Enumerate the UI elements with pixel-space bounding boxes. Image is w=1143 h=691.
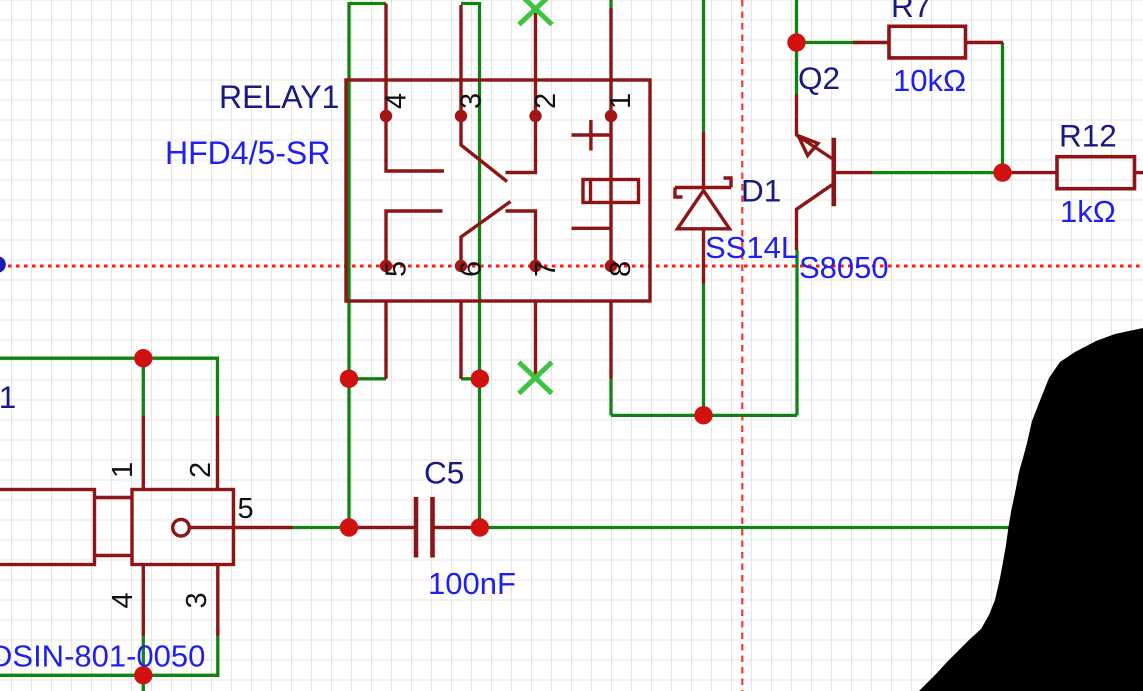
svg-text:R12: R12 [1059,118,1117,154]
connector J1 main body [132,490,234,565]
connector J1 neck top [95,496,133,499]
transistor Q2 base bar [831,138,836,207]
capacitor C5 left plate [414,497,419,558]
diode D1 schottky left hook [675,188,683,198]
resistor R12 left pin [1012,171,1058,174]
wire pin5 to junction [349,377,386,380]
junction pin6 net [471,370,489,388]
svg-text:1: 1 [107,462,139,478]
wire collector vertical [795,250,798,415]
diode D1 cathode pin [702,229,705,284]
wire pin8 to collector [611,414,797,417]
svg-text:2: 2 [185,462,217,478]
wire pin6 to junction [461,377,480,380]
svg-text:10kΩ: 10kΩ [893,63,966,98]
junction conn bottom [134,666,152,684]
relay pin 8 stub [609,301,612,379]
relay pin 5 stub [384,301,387,379]
diode D1 schottky right hook [724,178,732,188]
svg-text:1kΩ: 1kΩ [1060,194,1116,229]
transistor Q2 emitter arrow [798,136,818,156]
resistor R7 body [889,26,966,58]
relay RELAY1 body [346,80,650,301]
wire conn top net [0,358,218,416]
relay pin 2 stub [534,9,537,116]
capacitor C5 left pin [350,526,416,529]
wire emitter node to R7 [797,41,854,44]
connector J1 pin3 lead [216,565,219,637]
wire vertical x479 [478,2,481,528]
relay contact pin5 [386,211,443,266]
relay pin dot 2 [529,110,541,122]
junction pin5 net [340,370,358,388]
wire R7 right down [1001,43,1004,173]
svg-text:100nF: 100nF [428,566,516,601]
connector J1 switch circle [173,519,190,536]
wire vertical x349 [347,2,350,528]
svg-text:3: 3 [181,592,213,608]
wire base to node [872,171,1012,174]
relay contact pin7 [506,211,536,266]
relay coil wire [609,116,612,266]
connector J1 pin1 lead [142,416,145,490]
svg-text:RELAY1: RELAY1 [219,79,339,115]
relay coil inner line [589,180,592,203]
relay contact pin2 [506,116,536,173]
relay pin 1 stub [609,8,612,116]
svg-text:7: 7 [530,261,562,277]
wire relay pin1 top stub [609,0,612,9]
svg-text:Q2: Q2 [798,60,840,96]
origin axis vertical dashed [741,0,743,691]
relay pin 7 stub [534,301,537,375]
wire conn bottom net [0,636,218,675]
relay pin 4 stub [384,4,387,117]
connector J1 neck bottom [95,554,133,557]
svg-text:R7: R7 [891,0,931,24]
no-connect X pin7 [519,362,552,393]
wire conn pin5 to C5 [293,526,351,529]
relay coil plus mark [572,120,611,151]
origin axis horizontal dotted [0,265,1143,268]
svg-text:1: 1 [605,93,637,109]
no-connect X pin2 [519,0,552,25]
svg-text:SS14L: SS14L [705,230,798,265]
relay coil minus mark [572,227,611,230]
svg-text:5: 5 [381,261,413,277]
relay pin 6 stub [459,301,462,379]
connector J1 pin5 lead [190,526,293,529]
relay pin dot 4 [380,110,392,122]
relay pin dot 3 [455,110,467,122]
transistor Q2 collector [797,185,833,250]
connector J1 left body [0,490,95,565]
transistor Q2 base pin [834,171,872,174]
junction C5 right [471,518,489,536]
svg-text:HFD4/5-SR: HFD4/5-SR [165,135,330,171]
relay arm pin6 [461,202,511,267]
wire D1 top [702,0,705,132]
svg-text:3: 3 [456,93,488,109]
relay pin dot 7 [529,260,541,272]
resistor R7 left pin [853,41,889,44]
resistor R12 body [1057,157,1135,189]
svg-text:J1: J1 [0,379,16,415]
relay pin dot 6 [455,260,467,272]
junction emitter R7 [787,33,805,51]
wire conn pin4 net [142,636,145,691]
svg-text:8: 8 [605,261,637,277]
connector J1 pin4 lead [142,565,145,637]
relay pin 3 stub [459,5,462,116]
relay contact pin4 [386,116,444,171]
origin blue dot [0,256,6,273]
resistor R12 right pin [1135,171,1143,174]
wire pin8 down [609,379,612,415]
svg-text:S8050: S8050 [799,250,889,285]
resistor R7 right pin [966,41,1004,44]
svg-text:2: 2 [530,93,562,109]
capacitor C5 right plate [430,497,435,558]
junction R7 R12 base [993,163,1011,181]
svg-text:5: 5 [238,493,254,525]
junction D1 bottom [694,406,712,424]
relay arm pin3 [461,116,507,182]
wire relay pin3 top [461,2,480,5]
relay pin dot 5 [380,260,392,272]
svg-text:6: 6 [456,261,488,277]
relay pin dot 1 [605,110,617,122]
wire C5 right net [480,526,1010,529]
svg-text:DSIN-801-0050: DSIN-801-0050 [0,639,205,674]
relay coil body [583,180,639,203]
junction C5 left [340,518,358,536]
relay pin dot 8 [605,260,617,272]
svg-text:4: 4 [107,592,139,608]
black blob finger silhouette [919,328,1143,691]
connector J1 pin2 lead [216,416,219,490]
diode D1 cathode bar [675,186,731,189]
wire emitter node vertical [795,0,798,95]
svg-text:D1: D1 [741,173,781,209]
svg-text:4: 4 [381,93,413,109]
diode D1 anode pin [702,132,705,188]
diode D1 triangle [678,191,730,229]
wire D1 bottom [702,283,705,415]
wire conn pin1 drop [142,358,145,416]
svg-text:C5: C5 [424,455,464,491]
capacitor C5 right pin [433,526,480,529]
transistor Q2 emitter [797,95,833,159]
junction conn top [134,349,152,367]
wire net relay pin4 top [349,2,386,5]
